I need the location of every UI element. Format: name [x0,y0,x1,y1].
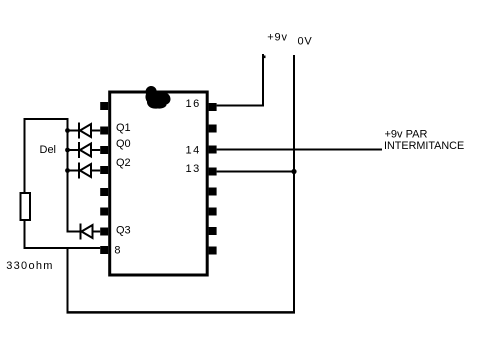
IC right pin row6 (pin 11) [209,208,217,216]
wire pin13 to 0V rail [217,171,294,173]
IC U1 body [110,92,208,275]
svg-text:+9v: +9v [267,32,287,44]
label INTERMITANCE [384,140,464,152]
label Q2 [116,157,131,169]
IC left pin row6 (pin 6) [100,208,108,216]
IC right pin row7 (pin 10) [209,227,217,235]
IC left pin row3 (pin 3, Q0) [100,146,108,154]
wire pin14 to text [217,149,382,151]
label Del [40,144,57,156]
svg-text:0V: 0V [298,36,313,48]
pin label 8 [114,245,120,257]
IC right pin row8 (pin 9) [209,247,217,255]
IC right pin row4 (pin 13) [209,168,217,176]
wire resistor bottom [24,220,26,248]
label +9v PAR [385,128,428,140]
label Q1 [116,122,131,134]
IC right pin row5 (pin 12) [209,188,217,196]
diode D4 (Q3 LED) [67,224,101,240]
svg-text:Q3: Q3 [116,224,131,236]
diode D2 (Q0 LED) [68,142,101,158]
left rail vertical (to resistor) [24,118,26,193]
label Q3 [116,224,131,236]
label Q0 [116,138,131,150]
+9v arrow tick [264,56,266,59]
IC right pin row3 (pin 14) [209,146,217,154]
svg-text:Q2: Q2 [116,157,131,169]
svg-text:Q1: Q1 [116,122,131,134]
junction dot D3 [65,168,70,173]
diode cathode rail [67,118,69,232]
diode D1 (Q1 LED) [68,123,101,139]
IC right pin row1 (pin 16) [209,103,217,111]
junction dot pin13/0V [291,169,296,174]
svg-text:14: 14 [186,144,201,156]
0V rail vertical [293,55,295,313]
IC U1 notch mark [145,86,170,109]
svg-text:Q0: Q0 [116,138,131,150]
label +9v [267,32,287,44]
IC left pin row4 (pin 4, Q2) [100,166,108,174]
wire +9v vertical riser [262,54,264,107]
label 0V [298,36,313,48]
ground drop vertical [67,248,69,314]
svg-text:330ohm: 330ohm [6,260,54,272]
svg-text:INTERMITANCE: INTERMITANCE [384,140,464,152]
junction dot D2 [65,148,70,153]
svg-text:+9v PAR: +9v PAR [385,128,428,140]
wire pin16 to +9v corner [217,105,264,107]
IC left pin row5 (pin 5) [100,188,108,196]
pin label 13 [186,163,201,175]
IC left pin row8 (pin 8, GND) [100,246,108,254]
IC left pin row7 (pin 7, Q3) [100,228,108,236]
IC left pin row2 (pin 2, Q1) [100,127,108,135]
pin label 16 [186,98,201,110]
IC left pin row1 (pin 1) [100,102,108,110]
svg-text:8: 8 [114,245,120,257]
junction dot D1 [65,128,70,133]
svg-text:13: 13 [186,163,201,175]
bottom rail [67,311,296,314]
ground wire horizontal to pin8 [24,247,101,249]
svg-text:Del: Del [40,144,57,156]
wire top-left horizontal [24,118,69,120]
diode D3 (Q2 LED) [68,163,101,179]
IC right pin row2 (pin 15) [209,125,217,133]
pin label 14 [186,144,201,156]
resistor R1 330ohm [21,193,31,220]
svg-text:16: 16 [186,98,201,110]
label 330ohm [6,260,54,272]
